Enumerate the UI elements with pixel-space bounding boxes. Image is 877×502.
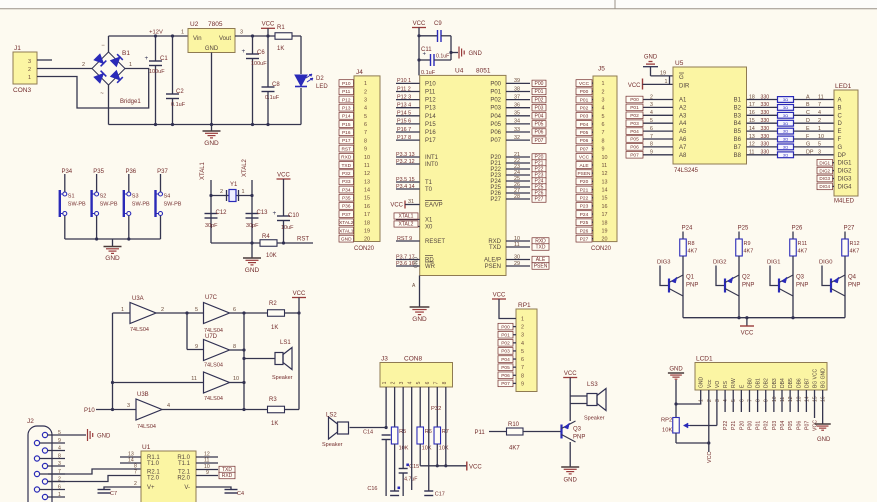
svg-text:LS2: LS2 <box>326 413 337 419</box>
wire bridge top to rail <box>108 36 110 52</box>
svg-text:1K: 1K <box>271 421 278 427</box>
svg-text:P16: P16 <box>425 130 436 136</box>
svg-text:DIG2: DIG2 <box>713 260 727 266</box>
wire U4 P07 <box>506 139 530 141</box>
svg-text:1: 1 <box>364 81 367 87</box>
wire LS2 to C14 node <box>350 427 387 429</box>
pin 13 U1 <box>120 456 141 458</box>
svg-text:P25: P25 <box>738 226 749 232</box>
svg-text:P3.5 15: P3.5 15 <box>396 177 415 183</box>
svg-text:VCC: VCC <box>741 331 754 337</box>
svg-text:TXD: TXD <box>489 245 502 251</box>
svg-text:J3: J3 <box>381 356 388 363</box>
ground GND right of C9 <box>449 47 482 59</box>
svg-text:5: 5 <box>521 349 524 355</box>
svg-text:PNP: PNP <box>742 283 754 289</box>
power VCC left of U5 <box>628 79 643 90</box>
svg-text:1: 1 <box>58 492 61 498</box>
svg-text:RXD: RXD <box>222 473 233 479</box>
svg-text:PSEN: PSEN <box>577 171 591 177</box>
svg-text:15: 15 <box>813 396 819 402</box>
svg-text:R11: R11 <box>798 241 808 247</box>
node GND J4 pin 20 <box>339 235 354 242</box>
svg-text:R8: R8 <box>688 241 695 247</box>
svg-text:4: 4 <box>818 110 821 116</box>
svg-text:C1: C1 <box>160 56 168 62</box>
wire LCD1 pin13 net P06 <box>797 390 799 412</box>
svg-text:RESET: RESET <box>425 239 445 245</box>
svg-text:P3.4 14: P3.4 14 <box>396 184 415 190</box>
wire XTAL1 vertical <box>210 180 212 243</box>
node P07 right of U4 <box>532 137 546 144</box>
resistor R7 <box>434 427 449 452</box>
svg-text:+: + <box>145 55 149 62</box>
svg-text:Vout: Vout <box>219 36 231 42</box>
node XTAL2 J4 pin 18 <box>339 219 354 226</box>
wire U4 P24 <box>506 180 530 182</box>
svg-text:C15: C15 <box>409 464 419 470</box>
svg-text:XTAL2: XTAL2 <box>242 158 248 177</box>
power VCC op-amp <box>292 291 306 410</box>
svg-text:P17: P17 <box>342 138 351 144</box>
svg-text:Speaker: Speaker <box>584 416 605 422</box>
capacitor C9 <box>419 21 451 53</box>
capacitor C7 below U1 <box>98 487 121 497</box>
node P32 J4 pin 12 <box>339 170 354 177</box>
svg-text:D: D <box>838 121 843 127</box>
svg-text:19: 19 <box>660 71 666 77</box>
capacitor C4 below U1 <box>196 487 244 497</box>
svg-text:P07: P07 <box>580 146 589 152</box>
svg-text:P37: P37 <box>342 212 351 218</box>
pin 2 J2 <box>48 481 65 483</box>
svg-text:P00: P00 <box>490 81 501 87</box>
svg-text:1: 1 <box>121 307 124 313</box>
node P37 J4 pin 17 <box>339 211 354 218</box>
speaker LS1 <box>272 340 293 381</box>
svg-text:J1: J1 <box>14 45 21 52</box>
svg-text:P02: P02 <box>501 341 510 347</box>
svg-text:T2.0: T2.0 <box>147 476 160 482</box>
svg-text:PNP: PNP <box>686 283 698 289</box>
resistor R19 330 <box>778 144 794 150</box>
svg-text:V+: V+ <box>147 485 155 491</box>
svg-text:3: 3 <box>364 97 367 103</box>
wire U3A output to U7C <box>156 312 204 314</box>
svg-text:14: 14 <box>804 396 810 402</box>
svg-text:8: 8 <box>756 399 762 402</box>
svg-text:74LS04: 74LS04 <box>137 424 156 430</box>
wire U4 P27 <box>506 198 530 200</box>
node P25 J5 pin 18 <box>576 219 592 226</box>
node P02 at U5 <box>626 112 643 119</box>
svg-text:R2: R2 <box>269 301 277 307</box>
svg-text:P25: P25 <box>580 220 589 226</box>
svg-text:9: 9 <box>650 150 653 156</box>
node P02 right of U4 <box>532 96 546 103</box>
ground GND below Q3 <box>561 467 579 484</box>
svg-text:P34: P34 <box>342 187 351 193</box>
wire emitter rail <box>683 317 845 319</box>
svg-text:1: 1 <box>818 126 821 132</box>
svg-text:8: 8 <box>58 453 61 459</box>
node P27 J5 pin 20 <box>576 235 592 242</box>
wire U4 P02 <box>506 99 530 101</box>
svg-text:P04: P04 <box>630 129 639 135</box>
capacitor C1 <box>145 34 169 126</box>
wire resistor to LED1 D <box>794 122 835 124</box>
svg-text:T0: T0 <box>425 187 433 193</box>
wire LCD1 pin4 net P22 <box>724 390 726 412</box>
svg-text:DIG4: DIG4 <box>838 184 853 190</box>
node P23 right of U4 <box>532 172 546 179</box>
svg-text:330: 330 <box>761 142 770 148</box>
svg-text:G: G <box>838 145 843 151</box>
svg-text:P07: P07 <box>630 153 639 159</box>
wire U4 P23 <box>506 174 530 176</box>
svg-text:30pF: 30pF <box>205 223 218 229</box>
wire U5 B3 to resistor <box>747 114 778 116</box>
node P22 J5 pin 15 <box>576 194 592 201</box>
wire U4 pin 6 <box>396 123 420 125</box>
switch S4 SW-PB <box>156 174 182 239</box>
wire U5 A3 <box>643 114 673 116</box>
svg-text:R4: R4 <box>262 234 270 240</box>
wire U4 TXD <box>506 246 530 248</box>
pin 14 U1 <box>120 462 141 464</box>
wire J1 pin1 to bridge <box>37 69 149 109</box>
svg-text:J2: J2 <box>27 418 34 425</box>
svg-text:P32: P32 <box>342 171 351 177</box>
svg-text:P20: P20 <box>580 179 589 185</box>
svg-text:5: 5 <box>650 118 653 124</box>
svg-text:14: 14 <box>364 188 370 194</box>
power VCC above U4 <box>412 21 426 75</box>
svg-text:20: 20 <box>364 237 370 243</box>
svg-text:RST 9: RST 9 <box>397 236 412 242</box>
node P17 J4 pin 8 <box>339 137 354 144</box>
wire J3 pin6 down <box>428 387 430 491</box>
svg-text:8: 8 <box>364 138 367 144</box>
svg-text:T1: T1 <box>425 180 433 186</box>
wire U7E input <box>113 382 204 384</box>
svg-text:11: 11 <box>204 458 209 464</box>
svg-text:8: 8 <box>442 381 448 384</box>
resistor R6 <box>417 427 432 452</box>
wire U4 pin 7 <box>396 131 420 133</box>
svg-text:74LS04: 74LS04 <box>130 327 149 333</box>
wire U5 A8 <box>643 154 673 156</box>
svg-text:DIG3: DIG3 <box>657 260 671 266</box>
svg-text:Y1: Y1 <box>230 182 238 188</box>
svg-text:GND: GND <box>699 377 705 389</box>
node P22 right of U4 <box>532 166 546 173</box>
svg-text:1: 1 <box>129 62 132 68</box>
svg-text:1: 1 <box>521 317 524 323</box>
svg-text:P01: P01 <box>756 421 762 430</box>
svg-text:B1: B1 <box>122 50 130 57</box>
svg-text:P00: P00 <box>580 89 589 95</box>
node P04 at RP1 <box>498 356 513 363</box>
svg-text:R9: R9 <box>744 241 751 247</box>
wire R8 to Q1 <box>682 256 684 275</box>
svg-text:RD: RD <box>425 258 434 264</box>
node P05 right of U4 <box>532 121 546 128</box>
node PSEN J5 pin 12 <box>576 170 592 177</box>
node P26 J5 pin 19 <box>576 227 592 234</box>
pin 3 J2 <box>48 465 65 467</box>
wire R12 to Q4 <box>844 256 846 275</box>
svg-text:P07: P07 <box>804 421 810 430</box>
svg-text:30pF: 30pF <box>246 223 259 229</box>
svg-text:4: 4 <box>602 106 605 112</box>
svg-text:9: 9 <box>58 438 61 444</box>
svg-text:BG VCC: BG VCC <box>813 368 819 388</box>
svg-text:100uF: 100uF <box>149 69 165 75</box>
wire J1 pin2 to bridge <box>37 68 92 70</box>
svg-text:P01: P01 <box>630 105 639 111</box>
capacitor C13 <box>246 210 269 229</box>
svg-text:LS1: LS1 <box>280 340 291 346</box>
svg-text:38: 38 <box>514 86 520 92</box>
svg-text:E: E <box>806 126 810 132</box>
svg-text:2: 2 <box>707 399 713 402</box>
wire LCD1 pin6 net P20 <box>740 390 742 412</box>
svg-text:P07: P07 <box>490 138 501 144</box>
svg-text:P06: P06 <box>580 138 589 144</box>
svg-text:+: + <box>273 210 277 217</box>
svg-text:3: 3 <box>28 59 31 65</box>
svg-text:330: 330 <box>761 150 770 156</box>
svg-text:330: 330 <box>761 110 770 116</box>
node P23 J5 pin 16 <box>576 203 592 210</box>
svg-text:6: 6 <box>58 484 61 490</box>
svg-text:4: 4 <box>650 110 653 116</box>
svg-text:PSEN: PSEN <box>485 264 501 270</box>
svg-text:U1: U1 <box>142 444 151 451</box>
svg-text:DP: DP <box>806 150 814 156</box>
svg-text:P36: P36 <box>125 169 136 175</box>
svg-text:10: 10 <box>364 155 370 161</box>
svg-text:Q4: Q4 <box>848 275 857 281</box>
svg-text:12: 12 <box>602 171 608 177</box>
wire U4 T0 <box>396 188 420 190</box>
speaker LS3 <box>584 382 606 422</box>
svg-text:14: 14 <box>128 458 134 464</box>
svg-text:D2: D2 <box>316 76 324 82</box>
wire P11 to R10 <box>489 431 507 433</box>
node P06 at U5 <box>626 144 643 151</box>
svg-text:P05: P05 <box>788 421 794 430</box>
wire U4 WR <box>396 265 420 267</box>
svg-text:5: 5 <box>416 381 422 384</box>
ground GND below buttons <box>104 239 122 262</box>
svg-text:ALE/P: ALE/P <box>484 258 501 264</box>
svg-text:P12 3: P12 3 <box>397 94 411 100</box>
svg-text:C10: C10 <box>288 213 300 219</box>
wire U5 B2 to resistor <box>747 106 778 108</box>
ground GND above U5 <box>643 55 658 76</box>
svg-text:Speaker: Speaker <box>322 442 343 448</box>
svg-text:+: + <box>242 48 246 55</box>
svg-text:M4LED: M4LED <box>834 199 855 205</box>
svg-text:G: G <box>679 75 684 81</box>
wire bridge bottom to rail <box>108 85 110 125</box>
wire J2 pin7 to U1 <box>48 469 141 474</box>
svg-text:19: 19 <box>602 228 608 234</box>
svg-text:P06: P06 <box>501 373 510 379</box>
svg-text:A7: A7 <box>679 145 687 151</box>
resistor R8 4K7 <box>680 239 687 256</box>
wire U4 P25 <box>506 186 530 188</box>
wire U5 B5 to resistor <box>747 130 778 132</box>
svg-text:5: 5 <box>364 114 367 120</box>
wire top rail right <box>235 35 301 37</box>
wire U4 PSEN <box>506 265 530 267</box>
node P06 at RP1 <box>498 372 513 379</box>
svg-text:B: B <box>806 102 810 108</box>
pin 5 J2 <box>48 434 65 436</box>
wire U4 pin 2 <box>396 91 420 93</box>
svg-text:330: 330 <box>761 102 770 108</box>
svg-text:330: 330 <box>761 118 770 124</box>
svg-text:P3.7 17: P3.7 17 <box>396 254 415 260</box>
pin 7 J2 <box>40 473 65 475</box>
svg-text:SW-PB: SW-PB <box>132 202 150 208</box>
ground GND left of U1 <box>88 429 112 441</box>
node P07 J5 pin 9 <box>576 145 592 152</box>
speaker LS2 <box>322 413 349 449</box>
svg-text:4K7: 4K7 <box>509 446 520 452</box>
svg-text:15: 15 <box>364 196 370 202</box>
svg-text:3: 3 <box>602 97 605 103</box>
svg-text:XTAL1: XTAL1 <box>399 214 414 220</box>
svg-text:2: 2 <box>364 89 367 95</box>
svg-text:4K7: 4K7 <box>688 249 698 255</box>
node P07 at RP1 <box>498 380 513 387</box>
node VCC J5 pin 10 <box>576 153 592 160</box>
wire R10 to Q3 base <box>523 431 562 433</box>
svg-text:74LS04: 74LS04 <box>204 363 223 369</box>
svg-text:P04: P04 <box>490 114 501 120</box>
wire U4 pin 8 <box>396 139 420 141</box>
svg-text:INT1: INT1 <box>425 155 439 161</box>
crystal Y1 <box>220 182 245 202</box>
svg-text:P04: P04 <box>580 122 589 128</box>
svg-text:GND: GND <box>669 367 683 373</box>
svg-text:G: G <box>806 142 810 148</box>
node P05 at U5 <box>626 136 643 143</box>
svg-text:P34: P34 <box>61 169 72 175</box>
wire U4 RESET <box>396 240 420 242</box>
svg-text:S3: S3 <box>132 194 139 200</box>
resistor R15 330 <box>778 112 794 118</box>
svg-text:3Ω: 3Ω <box>783 152 788 157</box>
svg-text:34: 34 <box>514 119 520 125</box>
inverter U3A <box>121 296 164 333</box>
svg-text:5: 5 <box>818 142 821 148</box>
wire resistor to LED1 C <box>794 114 835 116</box>
svg-text:9: 9 <box>764 399 770 402</box>
svg-text:16: 16 <box>602 204 608 210</box>
wire U4 pin 4 <box>396 107 420 109</box>
node VCC J5 pin 1 <box>576 80 592 87</box>
svg-text:B6: B6 <box>734 137 742 143</box>
svg-text:12: 12 <box>364 171 370 177</box>
svg-text:P02: P02 <box>764 421 770 430</box>
resistor R5 <box>391 427 408 452</box>
svg-text:2: 2 <box>650 94 653 100</box>
svg-text:33: 33 <box>514 127 520 133</box>
wire J3 pin7 down <box>436 387 438 427</box>
svg-text:1: 1 <box>699 399 705 402</box>
node TXD right of U4 <box>532 244 549 251</box>
wire J3 pin1 down <box>385 387 387 428</box>
svg-text:RXD: RXD <box>341 155 352 161</box>
svg-text:VO: VO <box>715 381 721 388</box>
IC U5 74LS245 <box>673 60 747 174</box>
wire branch to U7D input <box>186 313 188 350</box>
svg-text:C11: C11 <box>421 47 432 53</box>
svg-text:P05: P05 <box>630 137 639 143</box>
sheet border tick <box>614 0 616 9</box>
svg-text:18: 18 <box>749 94 755 100</box>
svg-text:DIG1: DIG1 <box>838 161 853 167</box>
svg-text:13: 13 <box>796 396 802 402</box>
svg-text:P05: P05 <box>501 365 510 371</box>
capacitor C17 <box>424 491 445 498</box>
svg-text:VCC: VCC <box>277 173 290 179</box>
ground GND left of LCD1 <box>668 367 684 418</box>
wire Q3 collector to ground <box>569 442 571 467</box>
svg-text:RP2: RP2 <box>661 418 672 424</box>
svg-text:5: 5 <box>195 307 198 313</box>
svg-text:20: 20 <box>602 237 608 243</box>
svg-text:P11: P11 <box>475 430 486 436</box>
node P02 at RP1 <box>498 340 513 347</box>
svg-text:29: 29 <box>514 261 520 267</box>
wire LCD1 pin5 net P21 <box>732 390 734 412</box>
node P03 J5 pin 5 <box>576 112 592 119</box>
wire VCC to LS3 <box>570 395 587 397</box>
svg-text:DB7: DB7 <box>804 378 810 388</box>
svg-text:7: 7 <box>818 102 821 108</box>
wire top rail left <box>109 35 189 37</box>
wire U4 P21 <box>506 162 530 164</box>
node P34 J4 pin 14 <box>339 186 354 193</box>
svg-text:DB0: DB0 <box>747 378 753 388</box>
svg-text:P20: P20 <box>739 421 745 430</box>
wire reset rail <box>211 242 260 244</box>
wire resistor to LED1 B <box>794 106 835 108</box>
switch S3 SW-PB <box>124 174 150 239</box>
svg-text:P12: P12 <box>425 98 436 104</box>
svg-text:−: − <box>101 43 105 49</box>
node P01 at RP1 <box>498 331 513 338</box>
wire LS1 to bus <box>244 358 275 360</box>
svg-text:10K: 10K <box>439 446 449 452</box>
svg-text:P21: P21 <box>731 421 737 430</box>
svg-text:U2: U2 <box>190 21 199 28</box>
svg-text:P27: P27 <box>580 236 589 242</box>
pin 9 U1 <box>196 475 218 477</box>
svg-text:C6: C6 <box>257 50 265 56</box>
wire LCD1 pin12 net P05 <box>789 390 791 412</box>
svg-text:37: 37 <box>514 94 520 100</box>
svg-text:TXD: TXD <box>536 245 546 251</box>
node P24 J5 pin 17 <box>576 211 592 218</box>
sheet top margin <box>0 0 877 9</box>
